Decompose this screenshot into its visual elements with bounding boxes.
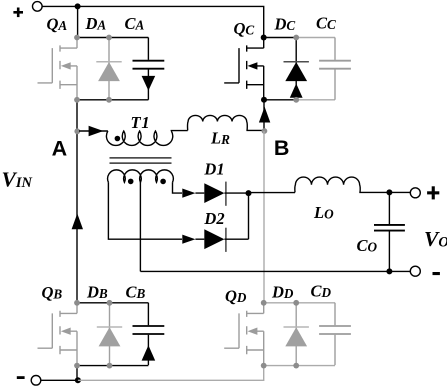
svg-text:DD: DD <box>271 283 294 302</box>
wire QD cell bottom <box>264 365 335 367</box>
diode DA <box>98 38 120 100</box>
wire QB cell top <box>77 302 148 304</box>
svg-text:T1: T1 <box>131 113 151 132</box>
arrow D1 input right <box>182 189 195 198</box>
node T1 primary polarity dot <box>115 136 121 142</box>
node DC junctions <box>293 35 299 103</box>
terminal + output <box>410 188 420 198</box>
svg-text:QA: QA <box>47 15 68 34</box>
arrow D2 input right <box>182 235 195 244</box>
diode DD <box>285 303 307 365</box>
arrow DC up <box>290 84 303 98</box>
node A <box>74 128 80 134</box>
wire B leg gray down <box>263 131 265 303</box>
node Lo output junction <box>386 189 392 195</box>
node top-rail junction <box>75 3 81 9</box>
arrow CB up <box>142 345 156 360</box>
svg-text:QD: QD <box>225 287 247 306</box>
wire secondary left end to D2 <box>108 182 182 239</box>
svg-text:B: B <box>274 136 290 160</box>
transformer T1 primary winding <box>106 131 172 145</box>
transistor QB <box>38 303 78 365</box>
diode D2 <box>204 229 224 249</box>
wire secondary right end to D1 <box>173 182 183 193</box>
wire T1 to LR <box>171 130 187 132</box>
wire left leg A <box>76 100 78 303</box>
terminal + input top <box>33 2 43 12</box>
label + input <box>13 8 23 18</box>
wire bottom rail gray to QD <box>78 366 264 380</box>
svg-text:D2: D2 <box>203 209 224 228</box>
wire QC source to B <box>263 100 265 131</box>
node secondary dot right <box>160 179 166 185</box>
node secondary dot left <box>128 179 134 185</box>
svg-text:CO: CO <box>357 236 378 255</box>
wire QA cell top <box>77 37 148 39</box>
wire QA drain leg <box>77 6 79 37</box>
wire bottom-left rail black <box>41 379 78 381</box>
node Co bottom junction <box>386 268 392 274</box>
svg-text:LR: LR <box>210 129 230 148</box>
diode DC <box>285 38 307 100</box>
wire QD cell top <box>264 302 335 304</box>
node QA cell junctions <box>74 35 112 103</box>
terminal - input bottom <box>31 376 41 386</box>
svg-text:D1: D1 <box>203 159 224 178</box>
wire QB source leg <box>76 366 78 380</box>
arrow CA down <box>142 76 156 91</box>
capacitor CB <box>133 303 165 365</box>
inductor LR <box>188 115 248 130</box>
wire A to T1 <box>79 130 108 132</box>
wire QA cell bottom <box>77 99 148 101</box>
capacitor CC <box>319 38 351 100</box>
node QB cell junctions <box>74 300 112 369</box>
terminal - output <box>410 266 420 276</box>
transistor QD <box>224 303 264 365</box>
svg-text:A: A <box>52 136 68 160</box>
wire QC cell top gray <box>296 37 335 39</box>
capacitor Co <box>388 192 390 224</box>
label - input <box>17 376 25 379</box>
svg-text:CB: CB <box>126 283 146 302</box>
node bottom-left junction <box>75 377 81 383</box>
svg-text:QB: QB <box>42 283 63 302</box>
wire QB cell bottom <box>77 365 148 367</box>
node D1-D2 junction <box>246 190 252 196</box>
transformer T1 secondary winding <box>108 170 174 182</box>
transistor QC <box>224 38 264 100</box>
svg-text:CA: CA <box>125 14 145 33</box>
wire QC cell top black <box>264 37 297 39</box>
wire center tap down <box>139 182 141 271</box>
svg-text:DA: DA <box>85 14 107 33</box>
transistor QA <box>38 38 78 100</box>
wire top rail <box>42 6 264 37</box>
node QD cell junctions <box>261 300 299 369</box>
wire D1 node to Lo <box>249 192 296 194</box>
label + output <box>427 186 439 199</box>
arrow A-to-T1 right <box>89 126 104 136</box>
wire Lo to + terminal <box>359 191 410 193</box>
label - output <box>433 272 440 275</box>
capacitor CD <box>319 303 351 365</box>
wire output bottom rail <box>140 270 410 272</box>
arrow B-leg up <box>259 107 270 123</box>
svg-text:LO: LO <box>313 203 334 222</box>
wire QC cell bottom gray <box>296 99 335 101</box>
svg-text:DB: DB <box>86 283 108 302</box>
arrow left-leg up <box>72 214 83 230</box>
svg-text:QC: QC <box>234 19 255 38</box>
svg-text:DC: DC <box>274 15 296 34</box>
inductor Lo <box>295 177 360 192</box>
diode D1 <box>204 183 224 203</box>
wire LR to B <box>246 129 264 131</box>
node B <box>262 128 268 134</box>
transformer core lines <box>110 158 172 163</box>
capacitor CA <box>133 38 165 100</box>
node QC drain junction <box>261 35 267 41</box>
svg-text:CC: CC <box>316 14 336 33</box>
svg-text:CD: CD <box>311 282 332 301</box>
wire D2 riser <box>248 193 250 239</box>
node QC source junction <box>261 97 267 103</box>
wire QC cell bottom black <box>264 99 297 101</box>
diode DB <box>99 303 121 365</box>
